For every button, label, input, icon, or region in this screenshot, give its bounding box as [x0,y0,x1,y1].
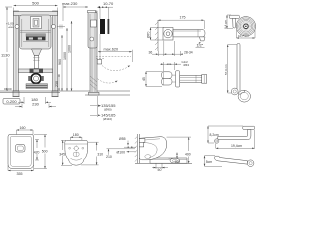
svg-text:(Ø90): (Ø90) [104,107,112,111]
range bar [108,19,110,34]
dim 1130 left [1,7,12,91]
dim max.230 [62,1,88,21]
wall bracket [231,88,238,95]
wall flange front [247,160,254,167]
svg-text:400: 400 [185,152,191,156]
flush hole [74,146,78,150]
svg-text:Ø43: Ø43 [184,63,190,67]
funnel to flush pipe [32,49,42,56]
feet [13,91,19,97]
flush pipe [34,56,38,69]
dim 230 bottom [15,102,56,108]
svg-text:175: 175 [180,15,186,19]
holder end cap [215,139,219,143]
svg-text:960: 960 [58,59,62,65]
svg-text:+1,00: +1,00 [6,22,14,26]
svg-text:Ø70: Ø70 [147,31,151,38]
dim 180 [70,133,82,141]
svg-text:19,4cm: 19,4cm [231,144,242,148]
svg-text:1130: 1130 [1,53,10,58]
svg-text:210: 210 [106,155,112,159]
level mark 0.00 [4,87,12,91]
dim 8.2cm [207,126,243,143]
valve end cap [202,75,207,84]
svg-text:10,7 cm: 10,7 cm [238,34,249,38]
hand shower side view [229,15,239,18]
svg-text:230: 230 [32,102,39,107]
cross member [19,69,53,73]
frame right rail [53,11,58,91]
svg-text:500: 500 [42,150,48,154]
rail bar [237,44,240,94]
holder wall plate [243,126,255,129]
svg-text:5cm: 5cm [206,160,213,164]
dim 50 [152,163,168,172]
dim 175 [158,15,205,29]
cistern internal mechanism (dark band) [26,34,46,37]
outlet heights dims [90,103,116,111]
dashed seat line [96,55,131,57]
svg-text:8,2cm: 8,2cm [210,133,219,137]
dim 1060 [68,21,73,91]
side profile [90,11,97,93]
svg-text:28-34: 28-34 [184,50,193,54]
dim 10.7 cm [236,30,255,39]
svg-text:0-200: 0-200 [6,99,17,104]
frame left rail [14,11,19,91]
svg-text:1/2″: 1/2″ [197,44,204,48]
hand shower front view (spray face) [236,17,255,36]
label 1/2" [196,42,205,48]
dim max.620 [98,48,133,62]
dim 1000 [63,28,68,91]
svg-text:345: 345 [59,152,65,156]
dim Ø55 [119,137,129,146]
bowl profile [139,137,167,160]
dim 400 [167,137,192,163]
dim 960 [58,35,63,91]
svg-text:50: 50 [158,168,162,172]
svg-text:45: 45 [142,77,146,81]
svg-text:500: 500 [32,1,39,6]
valve rosette [176,71,180,87]
water inlet connection left [15,25,19,29]
bottom dims 36 / 28-34 [149,41,193,56]
connection right [52,25,56,29]
dim 10-70 [97,1,114,19]
svg-text:420: 420 [34,150,40,154]
svg-text:1000: 1000 [63,52,67,60]
dim stub width [124,146,136,148]
valve handle [162,72,173,79]
labels G1/2 [160,60,189,71]
spout flange [163,28,173,41]
flush pipe stub [139,139,145,143]
dim 500 top [14,1,58,12]
dim 355 [8,165,34,176]
svg-text:310: 310 [97,153,103,157]
wall [136,134,138,163]
dim 230 right (outlet height) [55,74,60,91]
bowl front [65,140,88,165]
dim 500 [34,135,48,169]
svg-text:9,4 cm: 9,4 cm [223,19,227,29]
outlet circle [31,74,41,84]
svg-text:180: 180 [73,133,79,137]
dim 180 bottom [18,97,51,104]
inner slot [73,152,79,156]
flush bend stub [97,60,102,65]
outlet bend stripes [26,84,48,89]
holder tube front [215,156,248,164]
svg-text:57,9 cm: 57,9 cm [224,64,228,75]
fixing holes [69,147,71,149]
svg-text:Ø100: Ø100 [117,151,126,155]
cistern [20,15,52,49]
dim 310 [81,142,103,165]
svg-text:160: 160 [20,126,26,130]
dim 57.9 cm [224,45,237,94]
dim 210 [106,149,135,159]
dim 160 [17,126,34,135]
svg-text:10-70: 10-70 [103,1,114,6]
valve body pipe [180,75,202,82]
bowl outline top view [8,135,34,169]
dim Ø100 [117,151,136,155]
svg-text:1060: 1060 [68,45,72,53]
dim 100 [169,153,181,165]
floor line [0,90,130,92]
dim 0-200 box [3,99,20,105]
flush plate edge (black) [100,19,105,34]
drain [16,145,26,153]
svg-text:Ø55: Ø55 [119,137,126,141]
dim 420 [34,140,40,161]
outlet pipe below [150,158,187,163]
svg-text:max.620: max.620 [104,48,119,52]
dim Ø70 left [147,28,164,41]
dashed bowl curve [102,66,129,71]
svg-text:355: 355 [17,172,23,176]
dashed lower curve [98,79,117,83]
holder stem + arm [218,130,251,140]
spout body [173,30,205,37]
aerator [200,37,206,41]
dim 5cm [204,156,222,167]
flush actuator window [31,17,42,29]
svg-text:max.230: max.230 [62,1,78,6]
svg-text:(Ø110): (Ø110) [103,117,112,121]
wall line [157,20,159,51]
frame top crossbar [14,12,58,16]
svg-text:230: 230 [55,81,59,87]
svg-text:36: 36 [149,50,153,54]
dim 9.4 cm [223,15,233,29]
svg-text:±0,00: ±0,00 [4,87,12,91]
floor line side view [135,162,192,164]
dim 345 [59,140,72,165]
dim 19.4cm [216,130,255,149]
holder ring [238,91,250,103]
level mark +1.00 [6,22,14,28]
dim 45 [142,72,162,87]
